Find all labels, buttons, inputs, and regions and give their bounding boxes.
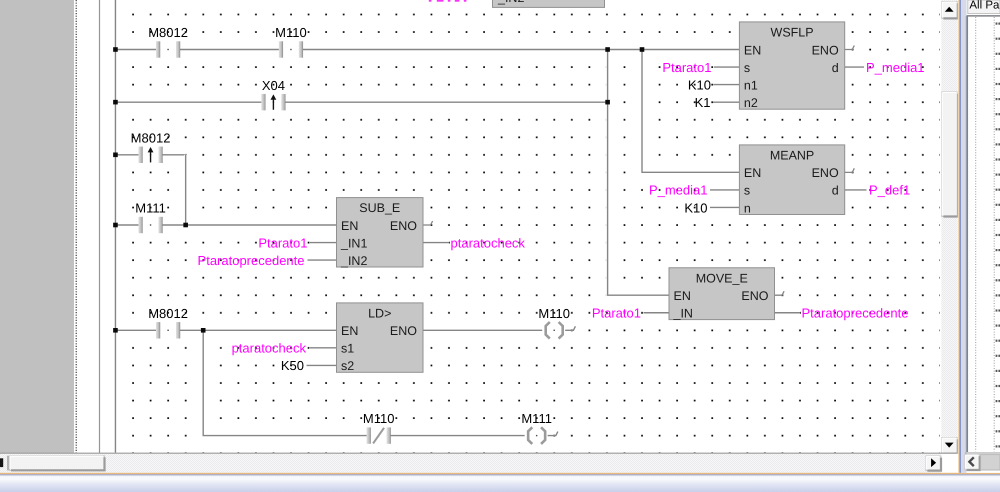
junction pulse drop [183, 223, 188, 228]
svg-text:SUB_E: SUB_E [359, 201, 400, 215]
open ENO stub SUB_E [423, 221, 433, 225]
wire vertical pulse to M111 rung [184, 155, 187, 225]
editor vertical scrollbar track [941, 0, 958, 454]
svg-text:Ptaratoprecedente: Ptaratoprecedente [802, 306, 909, 321]
wire P_media1 to MEANP s [710, 188, 739, 191]
svg-text:s2: s2 [341, 359, 354, 373]
right panel left border strips [957, 0, 960, 473]
svg-text:_IN2: _IN2 [497, 0, 524, 5]
wire vertical V2 to MEANP EN [642, 50, 739, 173]
svg-text:K50: K50 [281, 358, 304, 373]
svg-text:M8012: M8012 [148, 306, 188, 321]
wire Ptarato1 to WSFLP s [714, 66, 739, 69]
svg-text:M111: M111 [521, 411, 552, 426]
scrollbar button v-down [942, 438, 958, 454]
function block LD> U5 [337, 303, 424, 373]
tree item icon fragments [996, 23, 1000, 448]
wire rung 1 [115, 48, 739, 51]
svg-text:X04: X04 [262, 78, 285, 93]
svg-text:_IN2: _IN2 [340, 254, 367, 268]
wire rung 2 (X04) [115, 101, 607, 104]
function block fragment (top, cut off) [493, 0, 605, 7]
scrollbar button panel-left [965, 455, 980, 470]
svg-text:ENO: ENO [390, 219, 417, 233]
function block WSFLP U1 [739, 22, 844, 110]
svg-text:_IN1: _IN1 [340, 236, 367, 250]
clipped black element bottom-left [0, 458, 3, 467]
function block SUB_E U3 [337, 198, 424, 268]
open ENO stub WSFLP [845, 46, 855, 50]
wire K50 to s2 [307, 364, 337, 367]
contact M8012 pulse [138, 147, 162, 163]
right panel h-scrollbar [965, 452, 1000, 454]
svg-text:EN: EN [341, 219, 358, 233]
svg-text:WSFLP: WSFLP [771, 26, 814, 40]
wire SUB_E out to ptaratocheck [423, 241, 449, 244]
svg-text:EN: EN [744, 166, 761, 180]
svg-text:M110: M110 [275, 25, 307, 40]
wire Ptarato1 to _IN1 [310, 241, 337, 244]
svg-text:Ptaratoprecedente: Ptaratoprecedente [198, 253, 305, 268]
wire Ptaratoprecedente to _IN2 [308, 259, 337, 262]
svg-text:ptaratocheck: ptaratocheck [232, 341, 307, 356]
svg-text:s: s [744, 61, 750, 75]
wire WSFLP d to P_media1 [845, 66, 864, 69]
function block MOVE_E U4 [669, 268, 775, 321]
grid dots [124, 5, 940, 453]
function block MEANP U2 [739, 145, 844, 215]
wire K10 to MEANP n [710, 206, 739, 209]
vertical scrollbar thumb [942, 92, 958, 217]
right panel header "All Par" [968, 0, 1000, 14]
open ENO stub MEANP [845, 168, 855, 172]
svg-text:ENO: ENO [741, 289, 768, 303]
junction V1 rung2 [605, 100, 610, 105]
svg-text:n2: n2 [744, 96, 758, 110]
wire Ptarato1 to MOVE_E _IN [644, 311, 670, 314]
list control sunken border [965, 16, 967, 452]
left power rail [114, 0, 117, 453]
svg-text:ENO: ENO [390, 324, 417, 338]
contact X04 pulse [261, 94, 285, 110]
svg-text:K10: K10 [688, 77, 711, 92]
svg-text:P_media1: P_media1 [866, 60, 925, 75]
svg-text:K1: K1 [695, 95, 711, 110]
svg-text:P_def1: P_def1 [869, 183, 910, 198]
svg-text:MOVE_E: MOVE_E [696, 271, 748, 285]
wire K1 to n2 [713, 101, 739, 104]
magenta text fragment top [429, 0, 467, 2]
editor left margin line [99, 0, 101, 453]
svg-text:_IN: _IN [673, 307, 693, 321]
junction rail M111 [113, 223, 118, 228]
svg-text:P_media1: P_media1 [649, 183, 708, 198]
grid dotted vertical lines [975, 17, 977, 452]
svg-text:EN: EN [744, 43, 761, 57]
svg-text:ENO: ENO [812, 166, 839, 180]
svg-text:M110: M110 [538, 306, 570, 321]
wire MEANP d to P_def1 [845, 188, 867, 191]
scrollbar button h-right [926, 456, 941, 471]
contact M8012 rung1 [156, 41, 180, 57]
wire ptaratocheck to s1 [309, 346, 337, 349]
wire M111 rung to SUB_E EN [115, 224, 336, 227]
junction V1 top [605, 47, 610, 52]
horizontal scrollbar thumb (left panel) [10, 456, 105, 471]
junction V2 top [640, 47, 645, 52]
right panel orange border [959, 0, 960, 473]
svg-text:MEANP: MEANP [770, 149, 814, 163]
svg-text:ptaratocheck: ptaratocheck [451, 235, 526, 250]
contact M110 negated [367, 427, 391, 443]
junction rail LD [113, 328, 118, 333]
wire MOVE_E out to Ptaratoprecedente [775, 311, 801, 314]
contact M111 [138, 217, 162, 233]
wire LD rung [115, 329, 336, 332]
scrollbar button v-up [942, 2, 958, 19]
open ENO stub MOVE_E [775, 291, 785, 295]
left docked panel (gray) [0, 0, 74, 453]
right panel blue border [960, 0, 961, 473]
svg-text:n: n [744, 201, 751, 215]
svg-text:s1: s1 [341, 342, 354, 356]
contact M110 rung1 [279, 41, 303, 57]
svg-text:M111: M111 [135, 201, 166, 216]
coil M111 [525, 427, 558, 444]
splitter dotted line [75, 0, 77, 453]
svg-text:Ptarato1: Ptarato1 [258, 235, 307, 250]
svg-text:M8012: M8012 [131, 130, 171, 145]
svg-text:s: s [744, 184, 750, 198]
svg-text:M110: M110 [363, 411, 395, 426]
svg-text:d: d [832, 61, 839, 75]
svg-text:ENO: ENO [812, 43, 839, 57]
wire K10 to n1 [714, 83, 740, 86]
junction LD drop [201, 328, 206, 333]
svg-text:Ptarato1: Ptarato1 [592, 306, 641, 321]
wire vertical LD rung to bottom rung [203, 330, 525, 435]
svg-text:M8012: M8012 [148, 25, 188, 40]
contact M8012 LD rung [156, 322, 180, 338]
wire vertical V1 to MOVE_E EN [608, 50, 669, 296]
junction rail rung1 [113, 47, 118, 52]
svg-text:LD>: LD> [368, 307, 391, 321]
right panel h-scrollbar thumb [981, 455, 1000, 470]
svg-text:EN: EN [341, 324, 358, 338]
wire pulse M8012 rung [115, 153, 185, 156]
svg-text:d: d [832, 184, 839, 198]
junction rail pulse [113, 153, 118, 158]
svg-text:Ptarato1: Ptarato1 [662, 60, 711, 75]
svg-text:K10: K10 [684, 200, 707, 215]
svg-text:n1: n1 [744, 78, 758, 92]
taskbar gradient strip [0, 474, 1000, 492]
svg-text:EN: EN [674, 289, 691, 303]
window bottom tan border [0, 473, 1000, 475]
junction rail rung2 [113, 100, 118, 105]
coil M110 [542, 322, 575, 339]
svg-text:All Part: All Part [969, 0, 1000, 11]
wire LD ENO to coil M110 [423, 329, 543, 332]
bottom strip [0, 453, 941, 473]
